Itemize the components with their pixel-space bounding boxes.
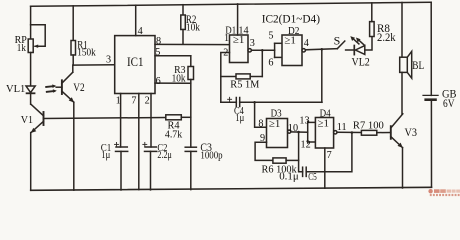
svg-text:7: 7 xyxy=(131,95,136,106)
wire D4 pin7 to ground xyxy=(324,148,326,188)
wire D2 out vertical down xyxy=(321,49,323,102)
IC1 box xyxy=(115,36,155,94)
wire V1 base long wire to R4 xyxy=(44,118,166,119)
node C4 wire junction to D3 pin8 xyxy=(253,101,256,104)
svg-text:R5 1M: R5 1M xyxy=(230,78,259,90)
svg-text:1: 1 xyxy=(224,33,229,44)
svg-text:10k: 10k xyxy=(186,22,201,34)
wire C4 right to D2-out vertical xyxy=(240,101,322,103)
svg-text:6: 6 xyxy=(268,58,273,69)
LED VL2 triangle xyxy=(355,46,364,55)
wire VL1 to V1 collector xyxy=(30,93,32,104)
svg-text:2: 2 xyxy=(145,95,150,106)
gate D4 (IC2d) xyxy=(307,121,309,143)
gate D1 (IC2a) xyxy=(230,35,249,63)
svg-text:2.2μ: 2.2μ xyxy=(157,149,172,161)
wire left column top (rail to RP) xyxy=(30,6,32,39)
resistor R5 xyxy=(221,76,236,78)
transistor V1 xyxy=(43,112,45,125)
svg-text:10: 10 xyxy=(288,123,298,134)
wire IC1 pin4 to top rail xyxy=(135,5,137,35)
svg-text:8: 8 xyxy=(258,118,263,129)
svg-text:2: 2 xyxy=(223,48,228,59)
wire D1 pin2 stub xyxy=(221,53,230,103)
svg-text:11: 11 xyxy=(337,122,347,133)
resistor R7 xyxy=(361,130,376,135)
svg-text:≥1: ≥1 xyxy=(269,118,281,130)
svg-text:4.7k: 4.7k xyxy=(165,129,183,141)
LED VL1 triangle xyxy=(26,86,35,93)
speaker BL xyxy=(401,3,403,58)
gate D3 (IC2c) xyxy=(267,119,288,148)
wire D3 pin9 stub to R6 xyxy=(255,142,273,160)
svg-text:4: 4 xyxy=(138,26,143,37)
wire IC1 pin7 down to ground xyxy=(138,94,140,190)
svg-text:V2: V2 xyxy=(73,82,85,94)
svg-text:9: 9 xyxy=(260,133,265,144)
wire D3 output to D4 xyxy=(291,131,308,133)
svg-text:10k: 10k xyxy=(172,72,186,84)
svg-text:S: S xyxy=(334,33,341,47)
svg-text:7: 7 xyxy=(327,150,332,161)
transistor V3 xyxy=(390,126,392,139)
wire D1 pin14 to rail xyxy=(237,4,239,35)
svg-text:2.2k: 2.2k xyxy=(377,32,396,44)
wire node X vertical xyxy=(299,132,303,172)
svg-text:1000p: 1000p xyxy=(200,150,223,162)
node X junction (D3 out / R6 / C5) xyxy=(297,131,300,134)
svg-text:6: 6 xyxy=(156,76,161,87)
capacitor C4 xyxy=(221,101,237,103)
wire D1 output xyxy=(251,49,274,51)
capacitor C2 xyxy=(145,146,156,148)
svg-text:≥1: ≥1 xyxy=(233,34,245,46)
svg-text:1μ: 1μ xyxy=(235,112,244,124)
svg-text:5: 5 xyxy=(155,47,160,58)
watermark xyxy=(428,189,460,196)
svg-text:IC2(D1~D4): IC2(D1~D4) xyxy=(262,11,320,25)
svg-text:1: 1 xyxy=(116,95,121,106)
capacitor C1 xyxy=(116,146,127,148)
svg-text:5: 5 xyxy=(268,31,273,42)
resistor R2 xyxy=(182,5,184,15)
battery GB xyxy=(423,94,438,96)
wire V1 emitter to ground rail xyxy=(30,133,32,191)
transistor V2 xyxy=(61,80,63,94)
LED VL2 light arrows xyxy=(352,38,359,44)
capacitor C3 xyxy=(185,146,196,148)
node D4 output junction to C5 xyxy=(351,131,354,134)
resistor R3 xyxy=(190,56,192,67)
resistor R1 xyxy=(72,6,74,41)
svg-text:8: 8 xyxy=(156,36,161,47)
wire right rail upper (battery top) xyxy=(430,2,432,95)
switch S blade xyxy=(337,41,345,49)
svg-text:13: 13 xyxy=(299,116,309,127)
svg-text:≥1: ≥1 xyxy=(284,35,296,47)
capacitor C5 xyxy=(302,167,304,176)
wire RP wiper loop xyxy=(31,25,46,47)
light arrows VL1 to V2 xyxy=(46,85,53,88)
wire RP to VL1 xyxy=(30,53,32,86)
resistor R8 xyxy=(370,22,375,37)
svg-text:0.1μ: 0.1μ xyxy=(279,170,299,182)
svg-text:C5: C5 xyxy=(308,171,317,183)
svg-text:V1: V1 xyxy=(21,114,33,126)
svg-text:6V: 6V xyxy=(443,98,455,110)
svg-text:12: 12 xyxy=(301,140,311,151)
wire D4 output to R7 xyxy=(337,131,361,133)
wire R1 bottom to IC1 pin3 xyxy=(73,64,115,66)
node D2 output junction xyxy=(321,48,324,51)
svg-text:VL2: VL2 xyxy=(352,57,371,69)
svg-text:4: 4 xyxy=(304,38,309,49)
svg-text:3: 3 xyxy=(106,55,111,66)
svg-text:150k: 150k xyxy=(77,46,96,58)
wire drop to D3 pin8 xyxy=(255,102,267,127)
wire S to VL2 xyxy=(346,49,355,51)
LED VL2 cathode bar xyxy=(353,46,355,55)
svg-text:V3: V3 xyxy=(405,127,418,139)
wire C5 right to R7 node xyxy=(306,133,352,172)
node D1 out junction xyxy=(261,49,264,52)
wire IC1 pin5 xyxy=(155,55,191,57)
wire D2 output to S xyxy=(305,49,337,50)
svg-text:BL: BL xyxy=(412,58,424,72)
gate D2 (IC2b) xyxy=(274,43,276,57)
wire IC1 pin6 xyxy=(155,82,191,84)
svg-text:1k: 1k xyxy=(17,42,27,54)
wire V2 emitter down to ground xyxy=(73,102,75,190)
wire IC1 pin1 down to C1 xyxy=(120,94,122,148)
svg-text:3: 3 xyxy=(250,38,255,49)
svg-text:1μ: 1μ xyxy=(101,149,110,161)
svg-text:R7 100: R7 100 xyxy=(353,120,384,132)
wire top supply rail xyxy=(31,2,432,6)
resistor R6 xyxy=(273,158,286,163)
LED VL1 cathode bar xyxy=(27,92,35,94)
svg-text:IC1: IC1 xyxy=(127,55,144,69)
wire IC1 pin8 to D1 pin1 xyxy=(155,43,230,45)
wire right rail lower (battery bottom) xyxy=(430,100,432,187)
wire VL2 to R8 xyxy=(365,37,372,51)
wire bottom ground rail xyxy=(31,187,432,190)
wiper arrowhead RP xyxy=(33,45,38,48)
wire R5 right to D1 output node xyxy=(261,50,263,76)
svg-text:≥1: ≥1 xyxy=(318,118,330,130)
wire IC1 pin2 down to C2 xyxy=(150,94,152,148)
resistor R4 xyxy=(166,115,182,120)
svg-text:VL1: VL1 xyxy=(6,83,25,95)
potentiometer RP body xyxy=(28,39,33,53)
